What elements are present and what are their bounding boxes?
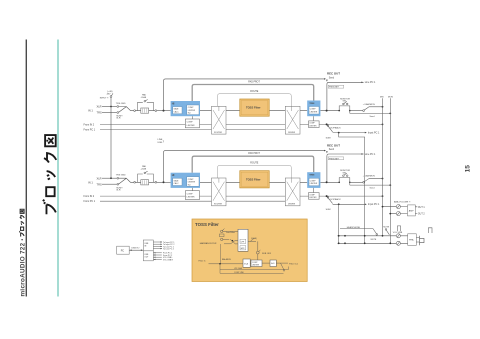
- switch mute A: [371, 229, 378, 241]
- arrow input PC: [365, 132, 367, 134]
- detail: AS box: [250, 260, 276, 267]
- TOSS Filter box (orange): [240, 99, 269, 116]
- arrow Line PC: [361, 82, 363, 84]
- pot line out 1: [396, 205, 400, 209]
- rail line-out lower: [390, 213, 396, 215]
- svg-text:COMP: COMP: [309, 123, 315, 125]
- svg-text:IN 1: IN 1: [88, 109, 93, 113]
- svg-text:TOSS Filter: TOSS Filter: [246, 106, 261, 110]
- pot phones 1: [396, 234, 400, 238]
- wire send line: [350, 111, 391, 118]
- connector icon B: [428, 228, 432, 233]
- svg-text:REC OUT: REC OUT: [327, 72, 340, 76]
- svg-text:15: 15: [465, 165, 472, 173]
- svg-text:ROUTE: ROUTE: [250, 91, 259, 93]
- bus MON vertical: [388, 97, 393, 244]
- router matrix box: [212, 106, 227, 134]
- wire to loop node: [157, 110, 171, 112]
- sidebar title ブロック図: [43, 135, 56, 214]
- wires amp to outs: [415, 207, 417, 214]
- svg-text:TRS: TRS: [97, 111, 102, 115]
- wires pots to phone amp: [400, 236, 407, 244]
- wire PAD/PROT outer loop: [164, 79, 325, 111]
- trim DSP box (blue): [307, 101, 320, 117]
- wire loopback ch1 drop: [339, 133, 365, 244]
- attenuator pad box: [141, 108, 149, 113]
- svg-text:LOOPBACK: LOOPBACK: [329, 126, 342, 129]
- svg-text:TOSS Filter: TOSS Filter: [195, 222, 219, 227]
- label ROUTE: [250, 91, 259, 93]
- svg-text:48V: 48V: [107, 93, 111, 95]
- svg-text:LPF 24dB: LPF 24dB: [234, 268, 243, 270]
- svg-text:BALANCE: BALANCE: [222, 258, 232, 261]
- rail monitor upper: [338, 235, 397, 237]
- pot line out 2: [396, 212, 400, 216]
- svg-text:ANA VOLUME ®: ANA VOLUME ®: [394, 200, 411, 203]
- svg-text:CALC: CALC: [174, 110, 180, 113]
- switch pad bypass: [144, 100, 148, 102]
- svg-text:From PC 1: From PC 1: [84, 129, 96, 132]
- svg-text:MON: MON: [388, 97, 393, 99]
- detail: comp box: [251, 260, 262, 267]
- line amp box: [408, 205, 416, 216]
- svg-text:microAUDIO 722: microAUDIO 722: [19, 242, 26, 296]
- wire input selector arm: [119, 107, 127, 113]
- wire trim to comp2: [312, 116, 314, 121]
- label PAD: [141, 93, 147, 99]
- connector icon A: [397, 226, 400, 231]
- node main/rec-out: [326, 110, 328, 112]
- wire headphone link: [340, 226, 373, 229]
- detail: VCA box: [243, 259, 250, 267]
- switch DAW/MON send: [363, 103, 384, 112]
- wire TRS input: [102, 112, 117, 114]
- svg-text:PAD: PAD: [142, 93, 147, 96]
- driver matrix box: [285, 106, 300, 134]
- wire PC to codec: [129, 249, 143, 251]
- switch pre-pad: [134, 110, 136, 112]
- detail: wire core out: [248, 238, 258, 251]
- svg-text:AMP: AMP: [409, 209, 414, 212]
- svg-text:COMP: COMP: [188, 107, 194, 109]
- channel 2 copy: [84, 143, 392, 211]
- svg-text:From IN 2: From IN 2: [84, 123, 95, 126]
- bus MIX vertical: [380, 97, 384, 236]
- detail: wire filter out: [276, 262, 298, 271]
- svg-text:ROUTER: ROUTER: [214, 132, 223, 134]
- detail: feedback labels: [234, 268, 245, 274]
- svg-text:PC: PC: [121, 249, 125, 252]
- codec A fan-out wires: [153, 241, 174, 251]
- svg-text:OUT 2: OUT 2: [418, 214, 425, 216]
- nodes on rails: [338, 235, 391, 244]
- rail line-out upper: [383, 206, 397, 208]
- svg-text:XLR: XLR: [97, 105, 102, 109]
- wire bypass loop thin: [218, 94, 292, 107]
- PC box: [117, 246, 130, 254]
- node bus crossing lower line: [382, 124, 384, 126]
- detail: sum node drop: [257, 254, 259, 260]
- svg-text:To Line PC 2: To Line PC 2: [163, 249, 174, 251]
- wire main to DAW switch: [350, 110, 363, 112]
- svg-text:MUTE: MUTE: [371, 239, 377, 241]
- svg-text:SUB OFF: SUB OFF: [262, 253, 272, 255]
- preamp DSP box (blue): [171, 101, 200, 116]
- label PAD/PROT: [248, 80, 260, 83]
- detail: filter core box: [238, 229, 248, 251]
- svg-text:LIMITER: LIMITER: [252, 265, 260, 267]
- node comp2 out: [326, 123, 328, 125]
- svg-text:PHA: PHA: [409, 239, 414, 242]
- comp/limiter box 2: [309, 121, 320, 128]
- detail: wire select to box: [221, 231, 239, 263]
- wire loopback ch2 drop: [338, 204, 340, 243]
- wire blue box to comp: [192, 116, 194, 119]
- switch TRS-GND on XLR line: [117, 106, 119, 108]
- svg-text:HARMAN FILTER: HARMAN FILTER: [200, 242, 217, 245]
- svg-text:VOL USB R: VOL USB R: [163, 259, 174, 261]
- rail monitor lower: [338, 242, 397, 244]
- input IN1 labels: [88, 105, 102, 115]
- wire 48V shared vertical: [110, 107, 112, 179]
- wire REC OUT tap: [327, 82, 364, 84]
- svg-text:+ DAW/MON: + DAW/MON: [363, 103, 375, 106]
- svg-text:Send: Send: [329, 77, 335, 79]
- detail: switch low: [219, 229, 224, 241]
- svg-text:USB I/O: USB I/O: [131, 247, 139, 249]
- svg-text:Input PC 1: Input PC 1: [368, 132, 380, 135]
- wire loopback to input PC: [333, 132, 366, 134]
- svg-text:LIMITER: LIMITER: [187, 125, 195, 127]
- wire XLR to main: [119, 107, 134, 111]
- svg-text:COMP LINK: COMP LINK: [234, 272, 245, 274]
- svg-text:LIMITER: LIMITER: [310, 112, 318, 114]
- svg-text:PRE/LINE®: PRE/LINE®: [329, 86, 340, 89]
- svg-text:TRIM: TRIM: [309, 103, 314, 105]
- svg-text:XLR: XLR: [116, 118, 121, 120]
- svg-text:SUM: SUM: [326, 138, 331, 140]
- svg-text:COMP: COMP: [187, 122, 194, 124]
- codec B fan-out wires: [153, 252, 173, 262]
- switch loopback sum: [326, 125, 342, 140]
- 48V phantom labels (ch1 only): [100, 91, 113, 100]
- monitor SW bracket: [338, 98, 350, 111]
- node bus2 to lineout: [389, 213, 391, 215]
- box PRE/LINE selector: [328, 85, 344, 88]
- svg-text:Filter Out: Filter Out: [289, 262, 298, 265]
- wires pots to line amp: [400, 207, 407, 214]
- USB codec box A: [143, 240, 153, 251]
- node loopback drop: [338, 132, 340, 134]
- sidebar cyan rule: [57, 40, 59, 297]
- svg-text:Filter In: Filter In: [199, 259, 207, 262]
- phones amp box: [408, 234, 417, 246]
- headphone jack symbol: [416, 236, 424, 245]
- svg-text:MUTE: MUTE: [383, 227, 389, 229]
- node pad/prot loop: [163, 110, 165, 112]
- node bus to lineout: [382, 206, 384, 208]
- switch TRS-GND on TRS line: [117, 112, 119, 114]
- svg-text:DRIVER: DRIVER: [288, 132, 296, 134]
- svg-text:LIMITER: LIMITER: [309, 125, 317, 127]
- arrow REC OUT up: [326, 80, 328, 82]
- wire main line mid: [200, 110, 339, 112]
- label LINE USB: [158, 139, 164, 144]
- svg-text:COMP: COMP: [310, 109, 316, 111]
- svg-text:-20dB: -20dB: [141, 97, 147, 99]
- label REC OUT / Send: [327, 72, 340, 80]
- switch 48V (ch1 only): [110, 93, 113, 106]
- sidebar small vertical text: [19, 209, 26, 296]
- svg-text:Send: Send: [370, 116, 376, 118]
- wire XLR input: [102, 106, 117, 108]
- wire through pad: [136, 110, 155, 112]
- svg-text:GAIN: GAIN: [174, 108, 179, 111]
- comp/limiter box under blue box: [185, 119, 199, 128]
- switch mute B: [383, 227, 389, 235]
- svg-text:Line PC 1: Line PC 1: [365, 81, 376, 84]
- svg-text:OUT 1: OUT 1: [418, 207, 425, 209]
- pot phones 2: [396, 241, 400, 245]
- TOSS Filter detail box (orange): [192, 219, 307, 282]
- svg-text:INPUT ®: INPUT ®: [100, 97, 109, 100]
- svg-text:HI: HI: [172, 102, 175, 105]
- USB codec box B: [143, 251, 153, 261]
- svg-text:PAD PROT: PAD PROT: [248, 80, 260, 83]
- wire lower line (From IN): [100, 123, 212, 125]
- detail: sum node: [256, 250, 271, 255]
- wire lower line through to driver: [226, 124, 383, 129]
- wire pad bypass loop: [138, 102, 154, 110]
- switch post-pad: [155, 110, 157, 112]
- svg-text:TRS GND: TRS GND: [116, 103, 126, 105]
- svg-text:(24dB): (24dB): [251, 238, 257, 240]
- node XLR/48V junction: [110, 106, 112, 108]
- svg-text:MIX: MIX: [380, 97, 384, 99]
- detail: lower chain wires: [209, 263, 289, 273]
- svg-text:LIMITER: LIMITER: [188, 110, 196, 112]
- sidebar dark rule: [26, 40, 27, 297]
- wire ROUTE loop (thick gray): [192, 85, 314, 102]
- label SUM/XLR: [116, 115, 123, 120]
- wire lower line (From PC): [100, 129, 212, 131]
- svg-text:}: }: [163, 139, 164, 143]
- arrow PC link: [130, 249, 143, 251]
